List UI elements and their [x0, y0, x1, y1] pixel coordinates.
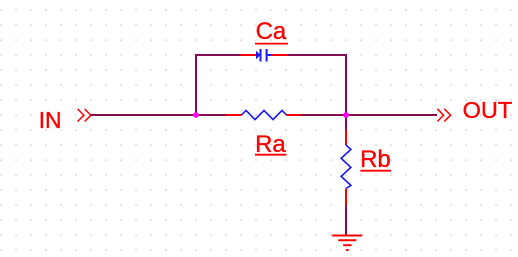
junction node A: [193, 112, 199, 118]
port OUT: [437, 109, 450, 122]
svg-text:OUT: OUT: [463, 97, 513, 123]
junction node B: [343, 112, 349, 118]
resistor Rb: [341, 130, 351, 205]
wire Rb to ground: [345, 205, 347, 235]
wire Ra to node B: [301, 114, 346, 116]
svg-text:Ca: Ca: [256, 18, 287, 45]
wire Ca to top-right: [288, 54, 347, 56]
capacitor Ca: [241, 49, 289, 62]
resistor Ra: [226, 110, 301, 119]
label Ra: [255, 131, 287, 158]
svg-text:Rb: Rb: [360, 146, 391, 173]
wire node A to Ra: [196, 114, 226, 116]
wire node A up to top rail: [195, 54, 197, 116]
label Ca: [255, 18, 288, 45]
wire node B down to Rb: [345, 115, 347, 130]
port IN: [78, 109, 91, 122]
wire IN to node A: [91, 114, 196, 116]
wire node B to OUT port: [346, 114, 437, 116]
wire top-left to Ca: [195, 54, 241, 56]
ground: [332, 236, 362, 251]
label Rb: [360, 146, 391, 173]
wire top rail down to node B: [345, 54, 347, 115]
svg-text:IN: IN: [39, 107, 62, 133]
